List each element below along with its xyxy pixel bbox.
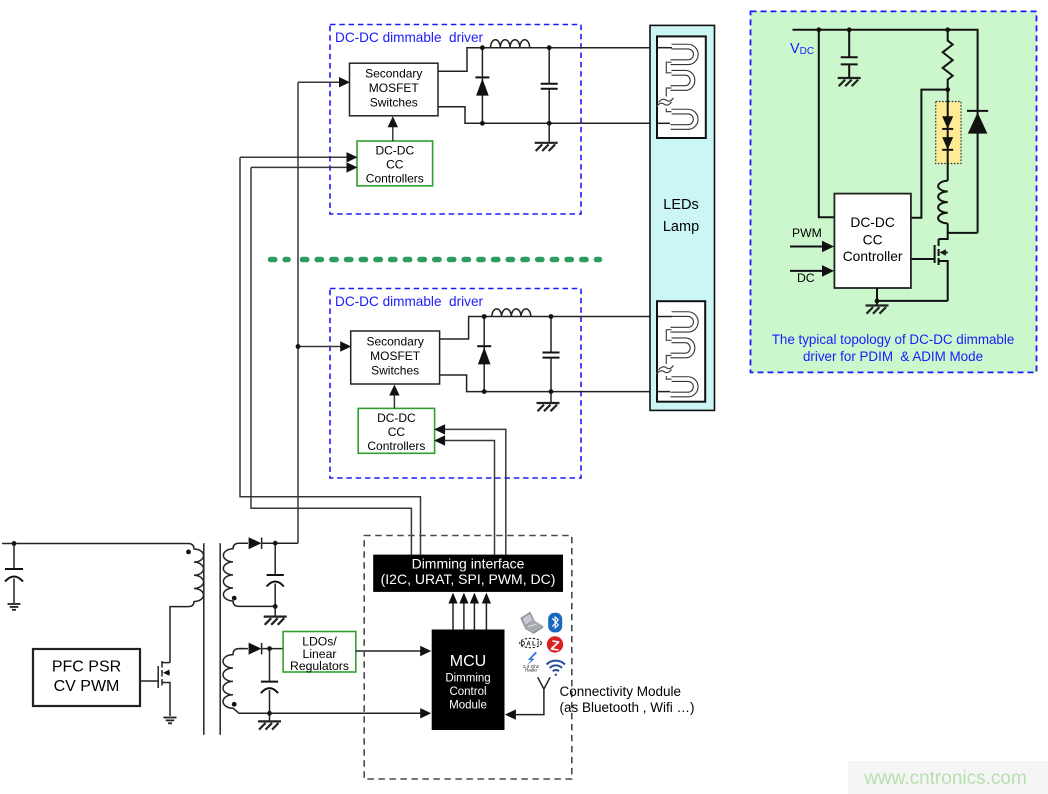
svg-text:www.cntronics.com: www.cntronics.com xyxy=(863,768,1027,789)
svg-text:Control: Control xyxy=(449,686,486,698)
svg-text:Switches: Switches xyxy=(370,96,418,110)
svg-text:Dimming interface: Dimming interface xyxy=(412,556,525,572)
svg-text:Switches: Switches xyxy=(371,364,419,378)
svg-text:CC: CC xyxy=(386,158,404,172)
svg-text:(I2C, URAT, SPI, PWM, DC): (I2C, URAT, SPI, PWM, DC) xyxy=(381,571,556,587)
svg-text:DC-DC: DC-DC xyxy=(375,144,414,158)
svg-text:DC-DC dimmable driver: DC-DC dimmable driver xyxy=(335,294,484,309)
svg-text:Controllers: Controllers xyxy=(367,439,425,453)
svg-text:Lamp: Lamp xyxy=(663,219,699,235)
svg-text:MOSFET: MOSFET xyxy=(369,81,420,95)
svg-text:The typical topology of DC-DC: The typical topology of DC-DC dimmable xyxy=(772,332,1015,347)
svg-text:MOSFET: MOSFET xyxy=(370,349,421,363)
svg-text:Regulators: Regulators xyxy=(290,659,349,673)
svg-text:Connectivity Module: Connectivity Module xyxy=(560,684,682,699)
svg-text:DALI: DALI xyxy=(521,641,541,647)
svg-text:PWM: PWM xyxy=(792,226,822,240)
svg-text:DC: DC xyxy=(797,271,815,285)
svg-text:Secondary: Secondary xyxy=(366,335,423,349)
svg-text:CC: CC xyxy=(863,233,883,248)
svg-text:(as Bluetooth , Wifi …): (as Bluetooth , Wifi …) xyxy=(560,700,695,715)
svg-text:DC-DC dimmable driver: DC-DC dimmable driver xyxy=(335,30,484,45)
svg-text:Controllers: Controllers xyxy=(366,172,424,186)
svg-text:DC-DC: DC-DC xyxy=(377,411,416,425)
svg-text:Dimming: Dimming xyxy=(445,673,490,685)
svg-text:DC-DC: DC-DC xyxy=(850,215,894,230)
svg-text:CV PWM: CV PWM xyxy=(54,678,120,695)
svg-text:Controller: Controller xyxy=(843,249,903,264)
svg-text:PFC PSR: PFC PSR xyxy=(52,659,121,676)
svg-text:CC: CC xyxy=(388,425,406,439)
svg-text:Module: Module xyxy=(449,700,487,712)
svg-text:driver for PDIM & ADIM Mode: driver for PDIM & ADIM Mode xyxy=(803,349,983,364)
svg-text:Radio: Radio xyxy=(525,668,537,673)
svg-text:LEDs: LEDs xyxy=(663,197,698,213)
svg-text:MCU: MCU xyxy=(450,653,486,670)
svg-text:Secondary: Secondary xyxy=(365,67,422,81)
